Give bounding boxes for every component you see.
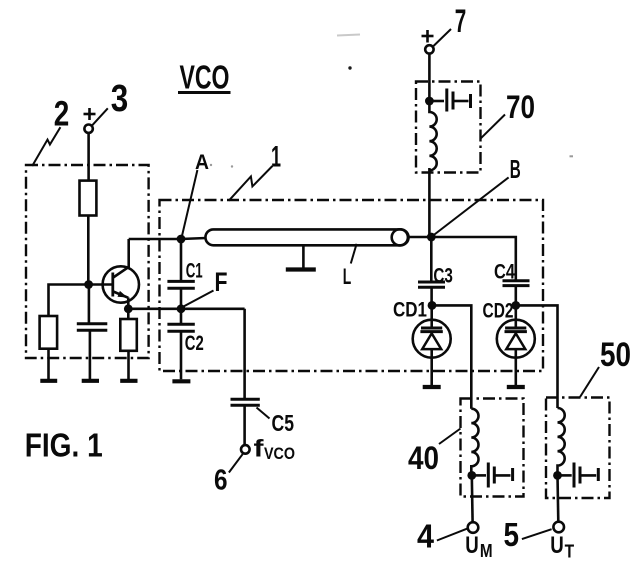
node B [427,233,436,242]
label UM [465,532,492,561]
ground resonator stub [286,267,316,271]
svg-text:CD2: CD2 [483,300,514,323]
wire base node left [49,285,89,317]
varactor CD2 [497,305,535,385]
ground CD1 [423,385,441,389]
wire R1 to base node [87,216,90,285]
wire node F branch to C5 [243,309,246,400]
wire collector up [127,239,130,268]
ground R3 [120,379,137,383]
svg-text:50: 50 [600,336,631,374]
box 40 (choke filter) [461,399,524,497]
terminal 3 circle [84,125,92,133]
svg-text:VCO: VCO [180,59,230,96]
svg-text:FIG. 1: FIG. 1 [25,427,103,464]
inductor in box 70 [429,101,436,170]
wire node CD2 to box 50 [516,305,558,408]
svg-text:M: M [480,541,493,561]
wire node B right to C4 [431,237,516,281]
capacitor in box 50 [558,463,599,488]
leader 6 [229,454,243,472]
box 2 (transistor oscillator module) [26,165,149,358]
svg-text:C4: C4 [494,261,515,284]
wire collector to node A [129,238,181,241]
svg-text:T: T [565,542,575,562]
wire emitter node to resistor R3 [127,309,130,319]
resistor R1 [80,181,97,216]
leader L [351,244,357,264]
capacitor C3 [418,282,445,287]
leader 4 [437,529,467,541]
leader 70 [480,115,505,139]
svg-text:7: 7 [455,3,467,39]
terminal 5 circle [553,522,564,533]
svg-text:VCO: VCO [264,445,295,463]
svg-text:F: F [215,267,228,297]
label UT [550,532,574,561]
wire terminal3 to R1 [87,133,90,181]
wire emitter down [127,298,130,309]
wire C2 to ground [180,331,183,379]
plus sign 7 [422,30,434,43]
node in box 40 [467,471,476,480]
svg-text:3: 3 [111,78,129,120]
wire base node down to capacitor [88,285,91,324]
wire node F to C2 [180,309,183,325]
svg-text:1: 1 [271,140,281,173]
node in box 50 [553,471,562,480]
capacitor C1 [167,281,194,288]
svg-text:C1: C1 [186,259,203,282]
capacitor Cb plates [77,324,108,331]
svg-text:40: 40 [408,440,439,476]
ground Cb [82,379,99,383]
box 1 (resonator module) [160,200,544,371]
wire C4 to node CD2 [514,286,517,306]
resistor R2 [40,316,58,349]
svg-text:CD1: CD1 [393,299,427,322]
node F [177,304,186,313]
label fVCO [254,435,296,463]
ground CD2 [507,385,525,389]
wire R3 to ground [127,351,130,379]
leader B [432,177,509,236]
wire resonator to node B [408,236,431,239]
ground R2 [40,379,57,383]
svg-text:B: B [510,154,521,184]
wire R2 to ground [47,349,50,379]
wire emitter node to node F [128,307,244,310]
wire C3 to node CD1 [430,287,433,305]
leader 50 [580,367,599,397]
resistor R3 [120,319,137,351]
capacitor in box 70 [429,89,470,112]
leader 1 zigzag [229,166,273,201]
svg-text:U: U [465,532,479,559]
leader 40 [439,429,461,445]
wire box 40 to terminal 4 [470,475,473,522]
capacitor C2 [167,324,194,331]
box 50 (choke filter) [546,398,610,499]
leader 3 [92,108,108,125]
varactor CD1 [413,305,451,385]
resonator end circle [392,229,408,245]
node base junction [84,280,93,289]
terminal 4 circle [468,522,479,533]
node A [177,235,186,244]
svg-text:L: L [343,264,352,289]
wire C1 to node F [180,288,183,309]
capacitor C4 [503,281,530,286]
inductor in box 50 [558,408,565,475]
plus sign 3 [84,108,96,120]
node CD1 [428,301,437,310]
wire node A to resonator [181,238,206,239]
wire node CD1 to box 40 [432,305,471,408]
stray scan marks [210,35,573,168]
terminal 7 circle [425,45,433,53]
svg-text:4: 4 [417,518,435,555]
leader A [182,170,198,238]
leader 5 [522,529,552,539]
svg-text:U: U [550,532,564,559]
svg-text:5: 5 [504,516,520,553]
wire node B up to box 70 [428,168,431,237]
capacitor in box 40 [472,463,513,488]
ground C2 [172,379,190,383]
wire node A to C1 [180,239,183,281]
resonator ground stub [302,245,305,267]
svg-text:C2: C2 [185,332,204,355]
svg-text:6: 6 [214,464,228,496]
transistor Q1 [103,266,139,302]
wire terminal 7 down [428,54,431,101]
wire Cb to ground [89,330,92,379]
leader 2 zigzag [32,127,60,166]
leader C5 [257,408,270,419]
wire box 50 to terminal 5 [556,475,559,521]
inductor in box 40 [471,409,478,476]
terminal 6 circle [241,445,250,454]
svg-text:2: 2 [54,95,69,134]
leader F [184,291,214,307]
wire node B down to C3 [430,237,433,282]
box 70 (choke filter) [416,82,481,173]
svg-text:70: 70 [506,89,535,125]
leader 7 [434,29,452,46]
wire C5 to terminal 6 [243,405,246,445]
node in box 70 [425,97,434,106]
title VCO [178,59,231,96]
svg-text:C5: C5 [272,410,295,436]
capacitor C5 [231,399,260,405]
node emitter junction [124,304,133,313]
wire base node to transistor base [89,283,113,286]
resonator L body [205,229,408,245]
node CD2 [511,301,520,310]
svg-text:C3: C3 [433,265,453,288]
